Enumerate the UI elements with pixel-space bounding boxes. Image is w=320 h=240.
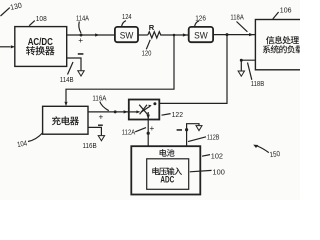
block 106: load of information handling system xyxy=(255,20,303,70)
block 102 battery xyxy=(131,146,200,194)
svg-text:116B: 116B xyxy=(83,141,97,150)
block 100 voltage-input ADC xyxy=(147,159,189,190)
wire 114B: converter - output with open arrow xyxy=(67,58,85,76)
label 122 xyxy=(162,110,184,119)
switch SW1 (124) xyxy=(115,27,138,42)
wire 118B: load return with open arrow xyxy=(238,59,256,76)
label 118B xyxy=(248,63,265,89)
label 108 xyxy=(29,14,46,26)
block U108 AC/DC converter xyxy=(15,27,67,67)
svg-text:108: 108 xyxy=(36,14,47,23)
node between R and switch 126 xyxy=(173,34,176,37)
svg-text:114B: 114B xyxy=(60,75,74,84)
svg-text:122: 122 xyxy=(172,110,183,119)
label 150 (figure reference arrow) xyxy=(253,145,280,160)
svg-text:126: 126 xyxy=(195,14,206,23)
block 104 charger xyxy=(43,106,88,134)
svg-text:ADC: ADC xyxy=(160,174,174,184)
svg-text:118A: 118A xyxy=(230,13,244,22)
svg-text:106: 106 xyxy=(280,5,292,14)
label 112B xyxy=(188,133,219,142)
svg-text:100: 100 xyxy=(213,167,225,176)
resistor R (120) zigzag xyxy=(148,32,161,38)
label 106 xyxy=(273,5,292,19)
wire 112B: battery - terminal with open arrow xyxy=(185,124,202,147)
svg-text:120: 120 xyxy=(142,48,152,57)
label 118A xyxy=(230,13,247,32)
svg-text:+: + xyxy=(78,36,83,45)
wire 116B: charger - output with open arrow xyxy=(88,127,105,140)
label 100 xyxy=(190,167,225,176)
wire: node after R down to charger input xyxy=(64,35,174,106)
svg-text:112A: 112A xyxy=(122,128,136,137)
minus sign at 116B xyxy=(98,125,103,126)
svg-text:AC/DC: AC/DC xyxy=(28,37,53,48)
svg-text:118B: 118B xyxy=(251,79,265,88)
label 130 (figure reference) xyxy=(1,1,23,16)
label 104 xyxy=(16,133,42,149)
node 118A xyxy=(226,33,229,36)
input wire (AC) with arrowhead xyxy=(0,45,15,48)
svg-text:SW: SW xyxy=(194,30,208,40)
svg-text:104: 104 xyxy=(16,138,27,149)
svg-text:+: + xyxy=(99,113,104,122)
minus sign at 114B xyxy=(78,53,84,55)
wire 118A: switch 126 to load xyxy=(213,33,255,36)
wire 114A: converter + output to switch 124 xyxy=(67,33,115,36)
switch block 122 (transfer switch) xyxy=(129,100,160,120)
label 126 xyxy=(195,14,206,27)
wire: switch 124 to resistor R xyxy=(138,34,148,36)
label 120 xyxy=(142,40,152,58)
label 114B xyxy=(60,62,74,84)
svg-text:+: + xyxy=(150,124,155,133)
svg-text:116A: 116A xyxy=(92,94,107,103)
svg-text:R: R xyxy=(149,23,155,32)
wire: node 118A down to switch 122 xyxy=(159,35,227,104)
svg-text:124: 124 xyxy=(122,12,132,21)
wire 112A: switch 122 to battery + terminal xyxy=(147,112,150,146)
label 102 xyxy=(202,152,223,161)
label 124 xyxy=(122,12,132,26)
wire 116A: charger + output to switch 122 xyxy=(88,110,129,113)
svg-text:112B: 112B xyxy=(207,133,219,142)
label 112A xyxy=(122,128,146,137)
node 116A xyxy=(114,110,117,113)
svg-text:114A: 114A xyxy=(76,14,90,23)
svg-text:150: 150 xyxy=(269,149,281,159)
switch SW2 (126) xyxy=(189,27,213,42)
svg-text:SW: SW xyxy=(120,30,134,40)
svg-text:102: 102 xyxy=(211,152,223,161)
label 114A xyxy=(76,14,90,33)
label 116A xyxy=(92,94,108,111)
minus sign at 112B xyxy=(177,129,182,131)
wire: resistor to switch 126 xyxy=(160,33,188,36)
node 114A xyxy=(80,34,83,37)
